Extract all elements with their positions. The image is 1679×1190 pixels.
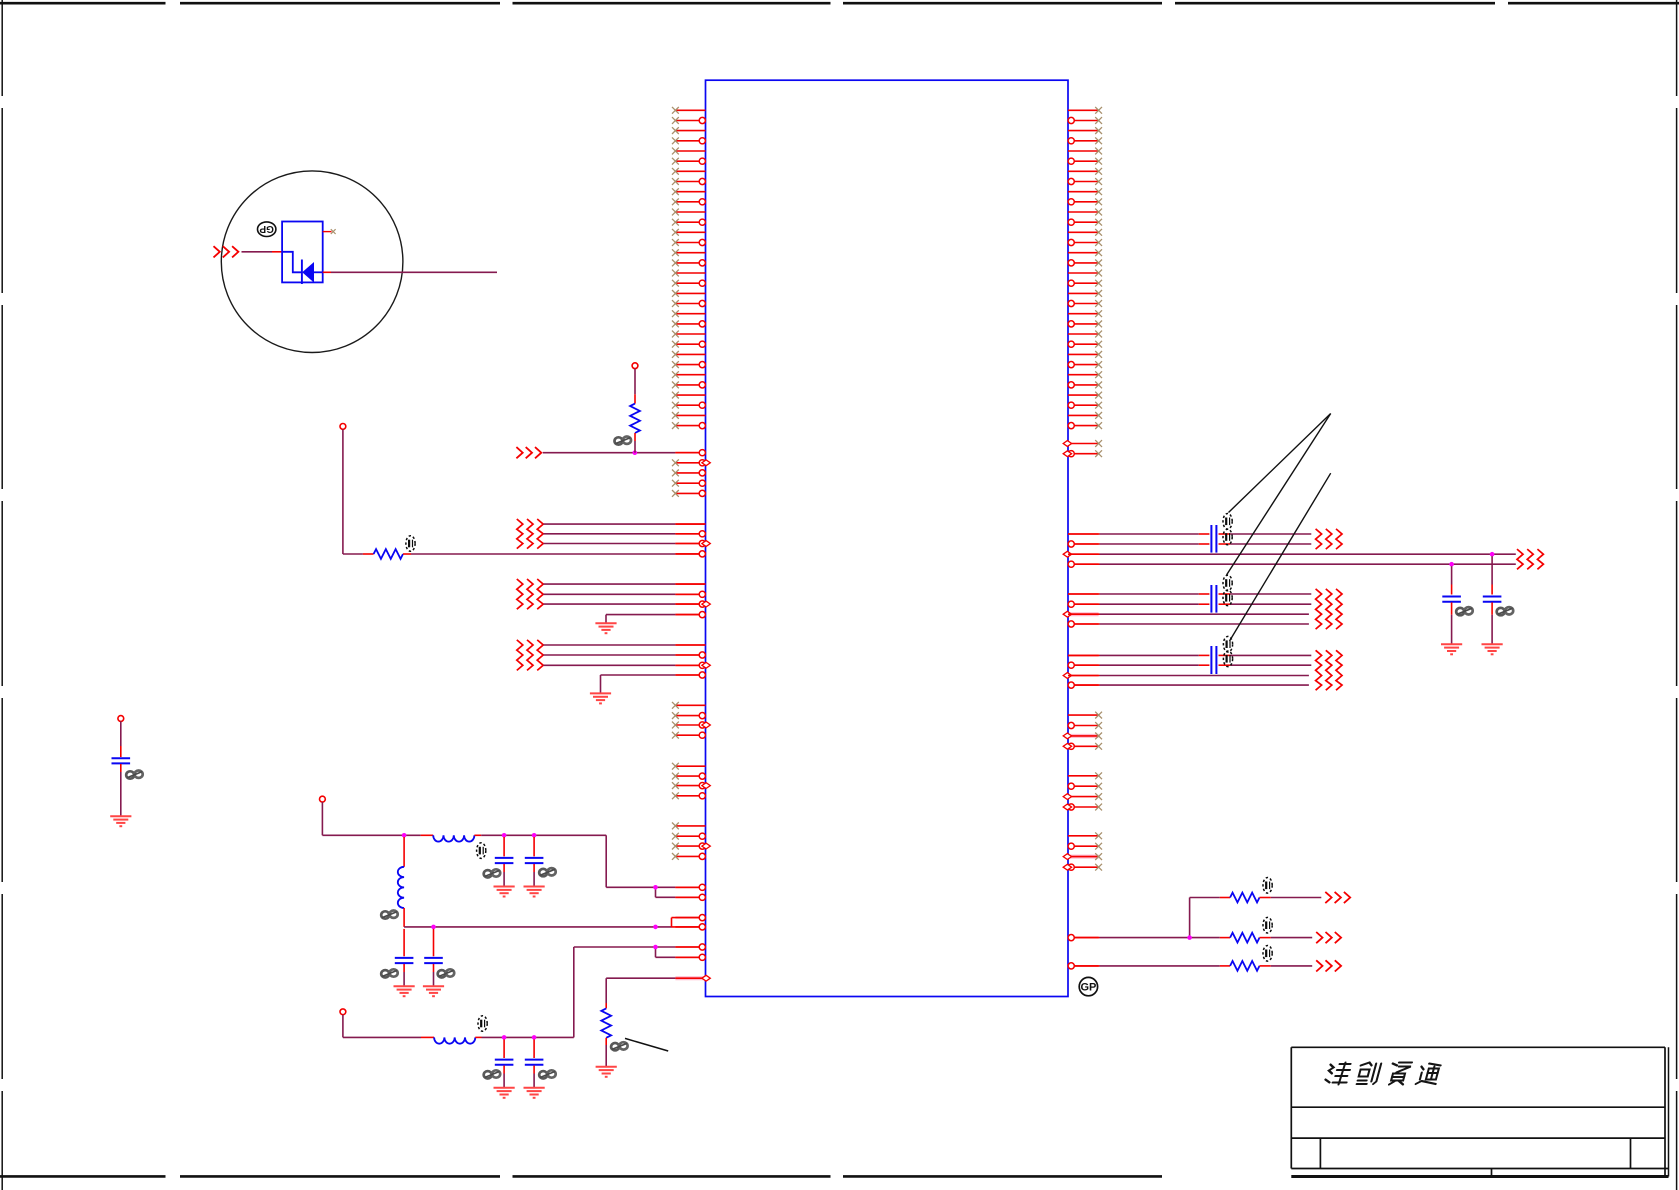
svg-text:GP: GP <box>1080 982 1096 994</box>
svg-text:GP: GP <box>259 223 274 234</box>
